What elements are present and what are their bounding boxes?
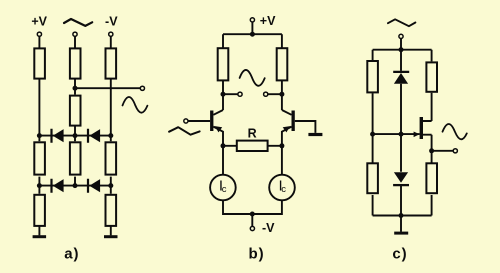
svg-text:+V: +V	[260, 14, 276, 28]
svg-text:+V: +V	[31, 15, 47, 29]
svg-text:c): c)	[392, 246, 407, 263]
svg-text:c: c	[281, 184, 286, 195]
svg-text:a): a)	[64, 246, 79, 263]
svg-text:b): b)	[249, 246, 265, 263]
svg-text:c: c	[222, 184, 227, 195]
svg-text:-V: -V	[105, 15, 118, 29]
svg-text:-V: -V	[262, 221, 275, 235]
svg-text:R: R	[248, 126, 257, 140]
